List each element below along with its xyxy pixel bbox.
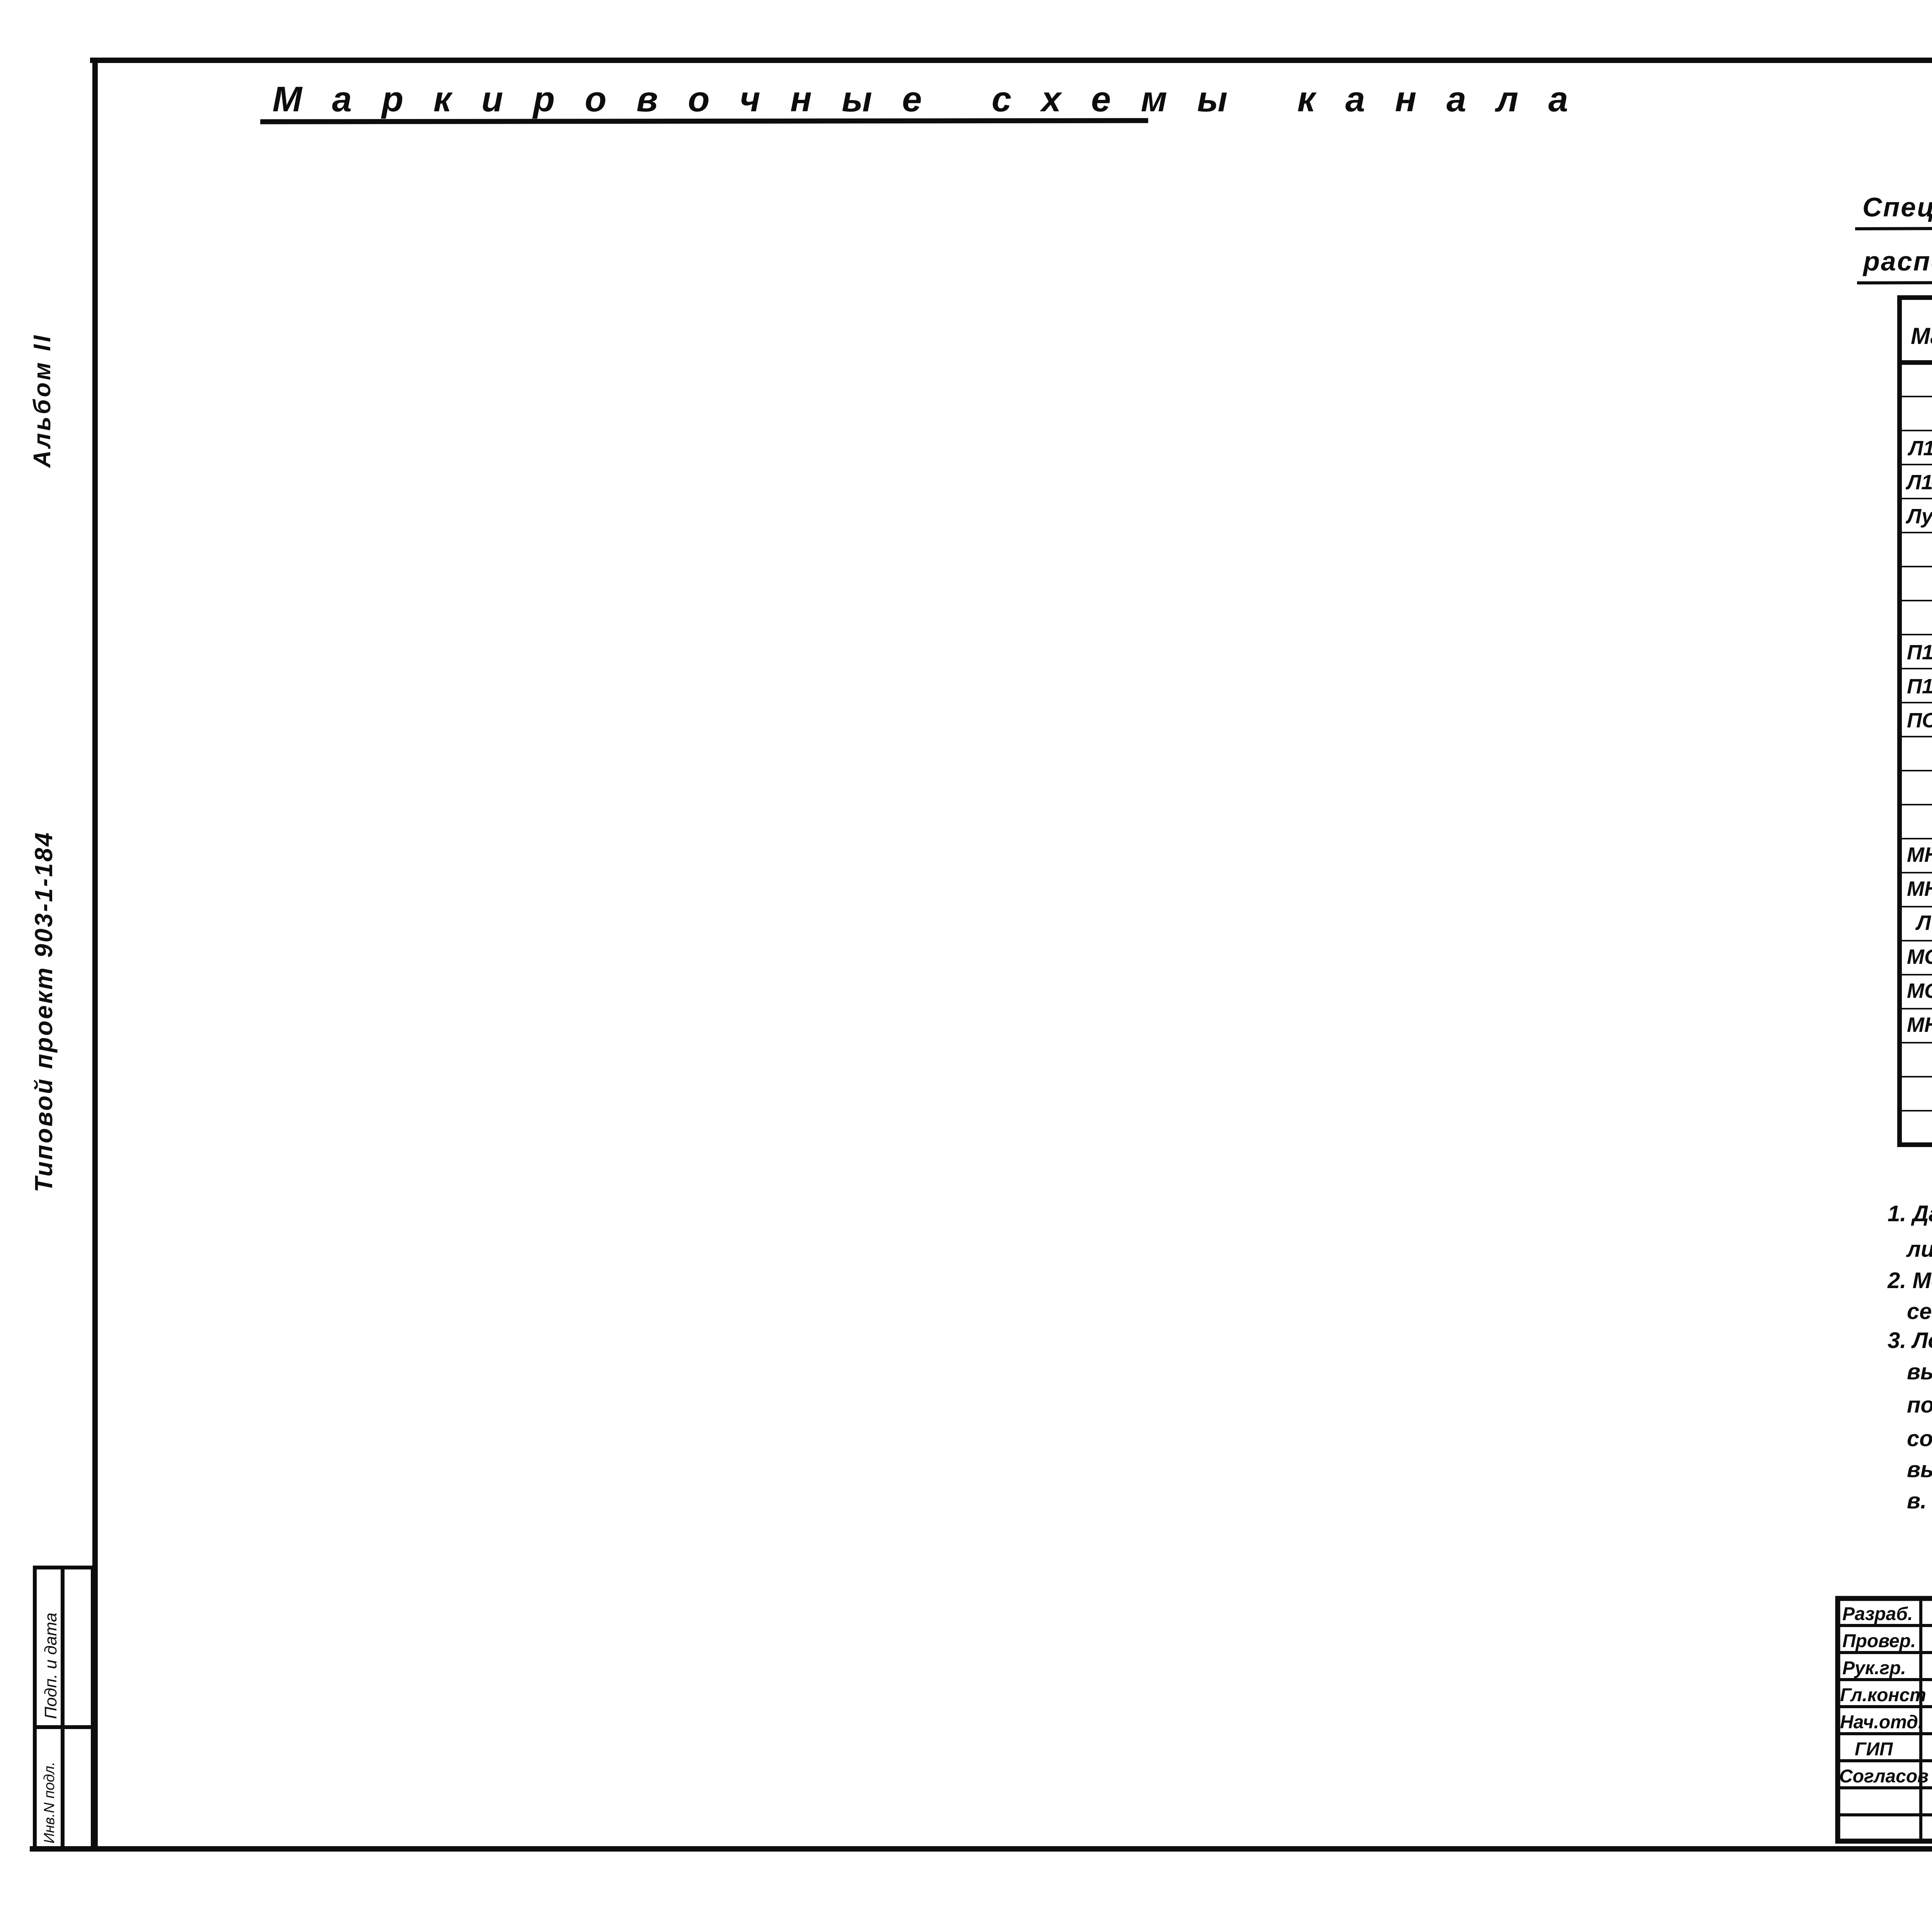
svg-text:Инв.N подл.: Инв.N подл. [41,1762,58,1843]
svg-text:МС 2: МС 2 [1907,979,1932,1003]
svg-text:выполнить в опалубке лотко: выполнить в опалубке лотков марки Л11-3 … [1907,1359,1932,1384]
svg-text:1. Данный лист расстатривать: 1. Данный лист расстатривать совместно с [1888,1201,1932,1226]
svg-text:П10g-3: П10g-3 [1907,675,1932,698]
title block text [1839,1604,1932,1787]
table body text [1905,367,1932,1142]
svg-text:Провер.: Провер. [1842,1631,1916,1651]
svg-text:Марка: Марка [1911,323,1932,349]
svg-text:МН4: МН4 [1907,1013,1932,1037]
svg-text:Л11g-3: Л11g-3 [1905,471,1932,494]
svg-text:МН1-5: МН1-5 [1907,843,1932,866]
svg-text:выполнить в опалубке плит: выполнить в опалубке плит П10-3 по серии… [1907,1457,1932,1482]
table header text [1911,317,1932,361]
svg-text:ГИП: ГИП [1855,1739,1893,1760]
svg-text:по серии 3.006-2 в. П-1,: по серии 3.006-2 в. П-1, в. Ш-2 укорочен… [1907,1392,1932,1418]
svg-text:Л: Л [1915,911,1932,934]
svg-text:Лу11-8: Лу11-8 [1905,505,1932,528]
svg-text:М а р к и р о в о ч н ы е с: М а р к и р о в о ч н ы е с х е м ы к а … [272,80,1578,119]
table grid [1900,298,1932,1145]
svg-text:листом кж-6.: листом кж-6. [1906,1237,1932,1262]
svg-text:Согласов: Согласов [1839,1766,1929,1787]
svg-text:2. Монолитные участки покрыт: 2. Монолитные участки покрытия канала ар… [1887,1268,1932,1293]
svg-text:3. Лотки марок Л11-3* ЛУ: 3. Лотки марок Л11-3* ЛУЦ-8* [1888,1328,1932,1353]
svg-text:в. П-2 длиной 3.0м.: в. П-2 длиной 3.0м. [1907,1488,1932,1513]
svg-text:Подп. и дата: Подп. и дата [41,1613,60,1719]
svg-text:соответственно 3.0м и 1.2м: соответственно 3.0м и 1.2м и плиты марки… [1907,1426,1932,1451]
bottom-left stamp boxes [35,1568,93,1849]
svg-text:сеткой с ячейкой 120х120 ф: сеткой с ячейкой 120х120 ф 6АI, бетон ма… [1907,1299,1932,1324]
svg-text:расположенным на листе: расположенным на листе [1862,246,1932,276]
svg-text:МН-1: МН-1 [1907,877,1932,900]
svg-text:Типовой проект 903-1-184: Типовой проект 903-1-184 [30,831,58,1192]
svg-text:Нач.отд.: Нач.отд. [1840,1712,1923,1733]
svg-text:Гл.конст: Гл.конст [1840,1685,1926,1705]
svg-text:Л11-3: Л11-3 [1907,437,1932,460]
svg-text:П10-3: П10-3 [1907,641,1932,664]
svg-text:МС 1: МС 1 [1907,945,1932,968]
svg-text:Альбом II: Альбом II [29,333,56,468]
svg-text:Разраб.: Разраб. [1842,1604,1913,1624]
svg-text:Спецификация элементов к ма: Спецификация элементов к маркировочным с… [1862,192,1932,222]
svg-text:ПО 2: ПО 2 [1907,709,1932,732]
svg-text:Рук.гр.: Рук.гр. [1842,1658,1906,1678]
